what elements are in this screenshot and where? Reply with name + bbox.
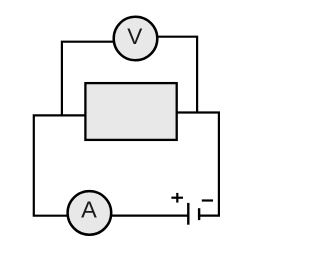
ammeter U2 circle [68, 191, 112, 235]
battery negative plate (short) [198, 208, 200, 220]
wire: ammeter to battery plus [112, 215, 189, 217]
wire: voltmeter right branch [158, 37, 198, 114]
battery minus sign [202, 199, 213, 201]
wire: left loop (resistor left to bottom-left corner to ammeter) [34, 115, 86, 215]
voltmeter U1 circle [114, 17, 158, 61]
battery positive plate (long) [187, 203, 189, 225]
svg-text:A: A [81, 196, 97, 222]
wire: voltmeter left branch [62, 42, 114, 117]
battery plus sign [171, 193, 183, 203]
svg-text:V: V [127, 24, 142, 49]
resistor (shaded box) [85, 83, 176, 140]
wire: right loop (resistor right to right edge down to battery minus) [176, 113, 219, 216]
